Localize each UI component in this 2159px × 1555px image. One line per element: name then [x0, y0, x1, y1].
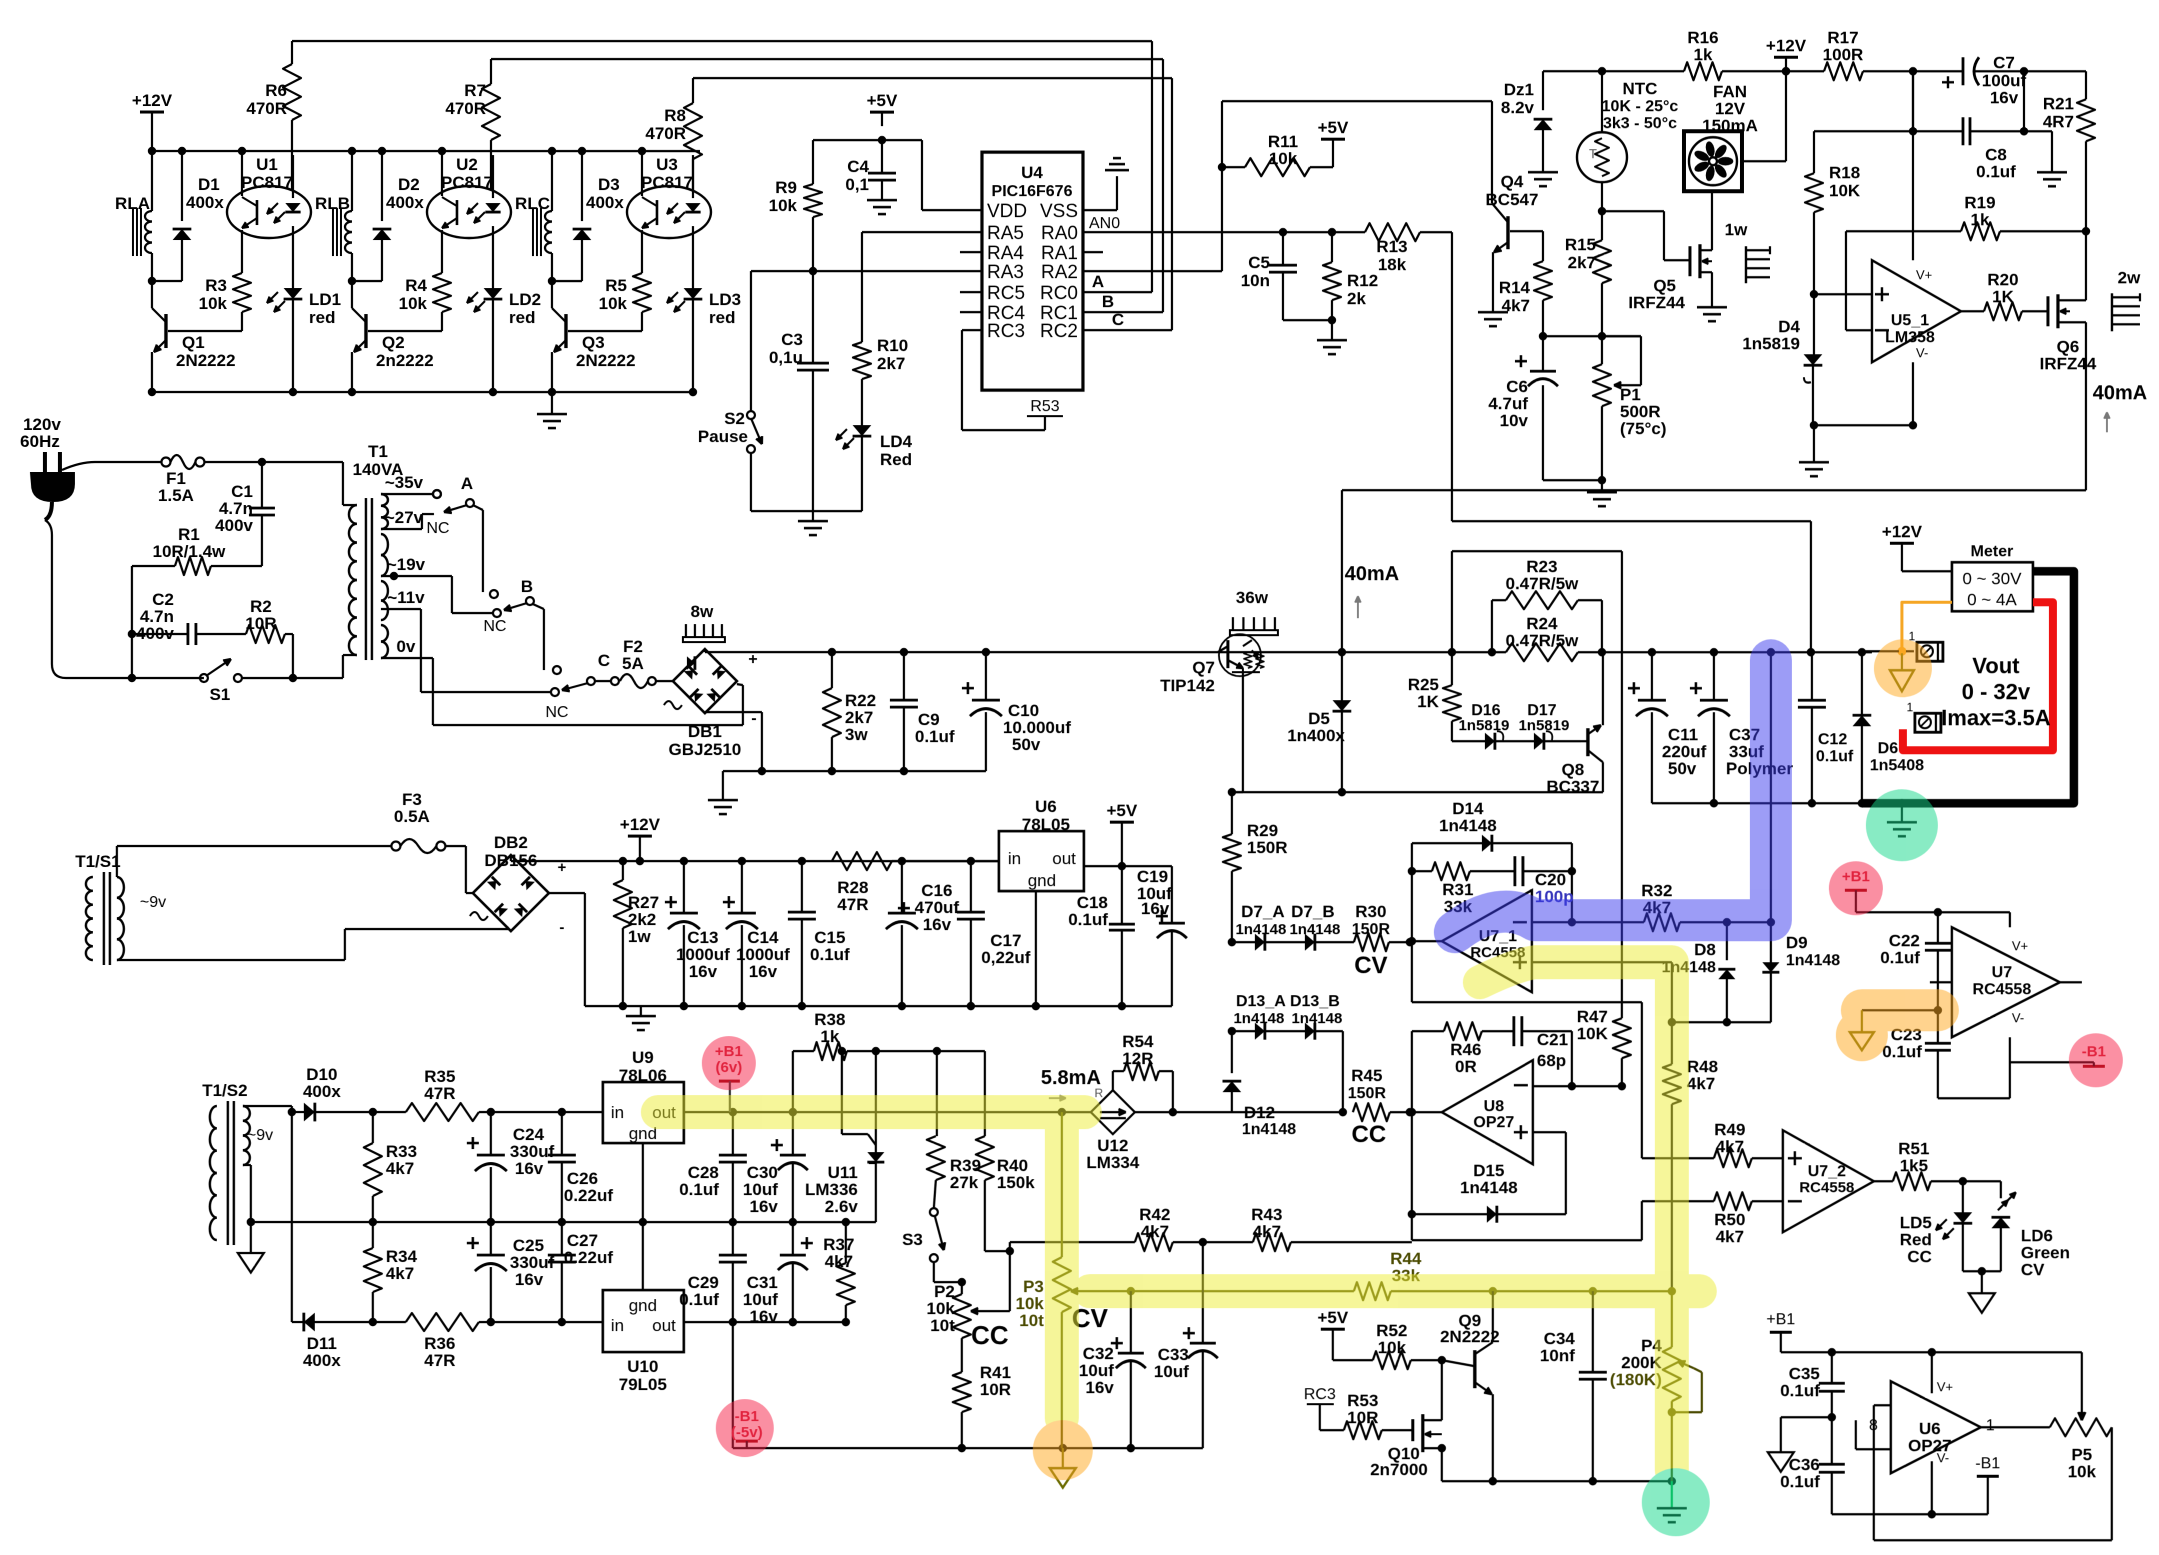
wire DB2 plus rail — [510, 855, 512, 861]
wire DB1 minus path — [705, 711, 762, 713]
svg-text:2k: 2k — [1347, 289, 1366, 308]
wire C22/C23 mid to triangle — [1862, 1009, 1938, 1011]
svg-text:0.1uf: 0.1uf — [1068, 910, 1108, 929]
resistor R54 12R — [1112, 1071, 1114, 1090]
svg-text:16v: 16v — [749, 1307, 778, 1326]
svg-text:BC337: BC337 — [1546, 777, 1599, 796]
svg-text:470R: 470R — [645, 124, 686, 143]
svg-text:10t: 10t — [930, 1316, 955, 1335]
wire D10/D11 feed vertical — [291, 1112, 293, 1322]
opamp U7 RC4558 — [1952, 927, 2060, 1037]
svg-text:C5: C5 — [1248, 253, 1270, 272]
resistor R41 10R — [961, 1338, 963, 1372]
svg-text:RA1: RA1 — [1041, 243, 1078, 264]
capacitor C26 0.22uf — [561, 1112, 563, 1155]
ground S2 rail — [812, 511, 814, 521]
opamp U8 OP27 — [1442, 1060, 1533, 1164]
resistor R17 100R — [1824, 62, 1863, 80]
svg-text:Q1: Q1 — [182, 333, 205, 352]
relay coil RLB — [351, 151, 353, 211]
wire VSS to ground — [1083, 209, 1117, 211]
wire U10 out row — [684, 1321, 846, 1323]
IC U9 78L06 — [603, 1082, 684, 1143]
svg-text:+5V: +5V — [1318, 118, 1349, 137]
svg-text:4k7: 4k7 — [1502, 296, 1530, 315]
svg-text:red: red — [509, 308, 535, 327]
resistor R25 1K — [1451, 652, 1453, 685]
wire R28 to U6 — [892, 860, 999, 862]
svg-text:S1: S1 — [210, 685, 231, 704]
resistor R22 2k7 3w — [831, 652, 833, 688]
fuse F1 1.5A — [161, 458, 170, 467]
wire Q7 emitter row — [1232, 791, 1603, 793]
svg-text:RC4558: RC4558 — [1973, 981, 2032, 998]
svg-text:Red: Red — [880, 450, 912, 469]
svg-text:1n5819: 1n5819 — [1742, 334, 1800, 353]
transistor Q1 2N2222 — [164, 314, 167, 348]
svg-text:C12: C12 — [1818, 731, 1847, 748]
svg-text:-B1: -B1 — [1975, 1455, 2000, 1472]
svg-text:36w: 36w — [1236, 588, 1269, 607]
svg-text:BC547: BC547 — [1486, 190, 1539, 209]
capacitor C24 330uf — [490, 1112, 492, 1155]
wire LED join — [1963, 1270, 2001, 1272]
svg-text:4k7: 4k7 — [386, 1159, 414, 1178]
svg-text:40mA: 40mA — [1345, 563, 1399, 585]
svg-text:D13_B: D13_B — [1290, 993, 1340, 1010]
resistor R12 2k — [1331, 232, 1333, 262]
resistor R24 0.47R/5w in bus — [1506, 643, 1578, 661]
svg-text:50v: 50v — [1012, 735, 1041, 754]
wire S1 bottom to DB2 — [117, 959, 345, 961]
capacitor C37 33uf Polymer — [1713, 652, 1715, 700]
zener U11 LM336 2.6v — [875, 1051, 877, 1152]
svg-text:16v: 16v — [1085, 1378, 1114, 1397]
wire RC1 to net B — [1083, 311, 1163, 313]
capacitor C6 4.7uf — [1542, 336, 1544, 371]
transistor Q2 2n2222 — [364, 314, 367, 348]
svg-text:16v: 16v — [515, 1159, 544, 1178]
mains plug — [43, 452, 47, 472]
svg-text:NTC: NTC — [1623, 79, 1658, 98]
resistor R2 10R — [196, 633, 246, 635]
resistor R35 47R — [406, 1103, 479, 1121]
svg-text:in: in — [1008, 849, 1021, 868]
svg-text:1k: 1k — [1694, 45, 1713, 64]
IC U6 78L05 — [999, 831, 1084, 891]
svg-text:RC3: RC3 — [1304, 1386, 1336, 1403]
red wire meter to Vout- — [1903, 602, 2053, 750]
svg-text:CC: CC — [1907, 1247, 1932, 1266]
svg-text:R15: R15 — [1565, 235, 1596, 254]
svg-text:V+: V+ — [2012, 938, 2028, 953]
wire net B from RC1 to R7 — [491, 58, 1163, 60]
resistor R40 150k — [984, 1051, 986, 1136]
wire R13 to Vout sense — [1451, 232, 1453, 521]
svg-text:4k7: 4k7 — [825, 1252, 853, 1271]
svg-text:10k: 10k — [599, 294, 628, 313]
svg-text:RLA: RLA — [115, 194, 150, 213]
svg-text:1.5A: 1.5A — [158, 486, 194, 505]
svg-text:100R: 100R — [1823, 45, 1864, 64]
svg-text:VDD: VDD — [987, 201, 1027, 222]
svg-text:10nf: 10nf — [1540, 1346, 1575, 1365]
wire rail R17-C7 — [1863, 70, 1963, 72]
wire U7_1 plus row — [1532, 961, 1672, 963]
+12V power flag meter — [1890, 542, 1914, 545]
+5V power flag U6 — [1110, 821, 1134, 824]
resistor R29 150R — [1231, 792, 1233, 834]
ground VSS — [1116, 176, 1118, 182]
wire U5 +input — [1814, 293, 1872, 295]
svg-text:0.1uf: 0.1uf — [679, 1180, 719, 1199]
orange wire meter to Vout+ — [1902, 602, 1952, 649]
resistor R44 33k — [1131, 1290, 1354, 1292]
ground D4/U5 — [1813, 425, 1815, 462]
svg-text:D2: D2 — [398, 175, 420, 194]
svg-text:IRFZ44: IRFZ44 — [2040, 354, 2097, 373]
resistor R43 4k7 — [1253, 1233, 1291, 1251]
svg-text:R5: R5 — [605, 276, 627, 295]
resistor R51 1k5 — [1874, 1180, 1893, 1182]
opamp U7_2 RC4558 — [1783, 1130, 1874, 1232]
wire opto emitter rail — [152, 391, 693, 393]
svg-text:NC: NC — [545, 704, 568, 721]
wire +B1 row U6b — [1781, 1351, 2082, 1353]
svg-text:10v: 10v — [1500, 411, 1529, 430]
optocoupler U3 PC817 — [627, 186, 711, 238]
svg-text:0.47R/5w: 0.47R/5w — [1506, 631, 1580, 650]
capacitor C31 10uf — [792, 1222, 794, 1255]
earth triangle P3 bottom — [1062, 1448, 1064, 1468]
resistor R7 — [490, 59, 492, 84]
sense triangle at Vout+ — [1901, 653, 1903, 670]
svg-text:10R: 10R — [980, 1380, 1011, 1399]
svg-text:U7: U7 — [1992, 964, 2013, 981]
ground Dz1 — [1528, 171, 1558, 174]
svg-text:LD1: LD1 — [309, 290, 341, 309]
capacitor C2 4.7n — [132, 633, 188, 635]
+5V power flag C4 — [870, 111, 894, 114]
diode D1 400x — [181, 151, 183, 221]
bridge rectifier DB2 DB156 — [473, 855, 549, 931]
svg-text:18k: 18k — [1378, 255, 1407, 274]
terminal 2 Vout- — [1915, 713, 1941, 732]
svg-text:gnd: gnd — [629, 1296, 657, 1315]
svg-text:R3: R3 — [205, 276, 227, 295]
resistor R33 4k7 — [372, 1112, 374, 1143]
svg-text:RC0: RC0 — [1040, 283, 1078, 304]
wire R1 left vertical — [131, 566, 133, 678]
svg-text:U10: U10 — [627, 1357, 658, 1376]
diode D3 400x — [581, 151, 583, 221]
svg-text:C21: C21 — [1537, 1030, 1568, 1049]
wire Q9/Q10/C34 bottom row — [1442, 1480, 1672, 1482]
resistor R9 10k — [812, 140, 814, 184]
wire U6b input feedback — [1874, 1404, 1891, 1406]
wire Q6 source 40mA net — [1342, 489, 2086, 491]
wire +12V rail — [152, 150, 700, 152]
svg-text:400v: 400v — [215, 516, 253, 535]
wire U8 minus row — [1533, 1085, 1622, 1087]
svg-text:4R7: 4R7 — [2043, 112, 2074, 131]
svg-text:1n4148: 1n4148 — [1439, 816, 1497, 835]
LED LD2 red — [484, 288, 503, 299]
svg-text:0v: 0v — [396, 637, 415, 656]
svg-text:C3: C3 — [781, 330, 803, 349]
resistor R21 4R7 — [2085, 71, 2087, 99]
diode D11 400x — [304, 1313, 315, 1332]
ground aux rail — [640, 1006, 642, 1016]
svg-text:400x: 400x — [386, 193, 424, 212]
resistor R37 4k7 — [837, 1263, 855, 1305]
capacitor C12 0.1uf — [1811, 652, 1813, 700]
svg-text:RA4: RA4 — [987, 243, 1024, 264]
svg-text:47R: 47R — [424, 1351, 455, 1370]
svg-text:3w: 3w — [845, 725, 868, 744]
svg-text:RA2: RA2 — [1041, 262, 1078, 283]
thermistor NTC — [1601, 71, 1603, 132]
svg-text:60Hz: 60Hz — [20, 432, 60, 451]
svg-text:U6: U6 — [1035, 797, 1057, 816]
svg-text:0.1uf: 0.1uf — [679, 1290, 719, 1309]
svg-text:10k: 10k — [1378, 1338, 1407, 1357]
capacitor C29 0.1uf — [732, 1222, 734, 1255]
svg-text:A: A — [461, 474, 473, 493]
wire C5/R12 join — [1283, 319, 1332, 321]
bridge rectifier DB1 GBJ2510 — [673, 649, 737, 713]
switch S3 — [930, 1208, 938, 1216]
fuse F2 5A — [611, 677, 619, 685]
svg-text:150R: 150R — [1352, 921, 1391, 938]
LED LD1 red — [284, 288, 303, 299]
capacitor C5 10n — [1282, 232, 1284, 265]
svg-text:5.8mA: 5.8mA — [1041, 1067, 1101, 1089]
capacitor C14 1000uf — [741, 861, 743, 913]
wire U6b V+ — [1931, 1352, 1933, 1393]
svg-text:16v: 16v — [1141, 899, 1170, 918]
wire R14/C6/R15/P1 row — [1543, 335, 1641, 337]
wire bottom aux rail — [733, 1447, 1203, 1449]
svg-text:+5V: +5V — [1107, 801, 1138, 820]
resistor R46 0R — [1411, 1031, 1413, 1240]
wire C7 right to R21 corner — [1975, 70, 2086, 72]
capacitor C8 0.1uf — [1912, 71, 1914, 131]
svg-text:1n4148: 1n4148 — [1291, 1010, 1342, 1027]
IC U10 79L05 — [603, 1290, 684, 1352]
diode D8 1n4148 — [1726, 922, 1728, 960]
svg-text:R21: R21 — [2043, 94, 2074, 113]
wire RA5 net to R10 — [862, 231, 982, 233]
svg-text:R45: R45 — [1351, 1066, 1382, 1085]
svg-text:LD3: LD3 — [709, 290, 741, 309]
wire R44 row wiper — [1090, 1290, 1131, 1292]
svg-text:+: + — [748, 651, 757, 668]
svg-text:400x: 400x — [186, 193, 224, 212]
svg-text:V-: V- — [2012, 1010, 2024, 1025]
resistor R39 27k — [936, 1051, 938, 1136]
potentiometer P2 10k 10t — [961, 1282, 963, 1294]
wire R23 outer loop — [1451, 551, 1453, 652]
resistor R52 10k — [1333, 1359, 1373, 1361]
svg-text:RC3: RC3 — [987, 321, 1025, 342]
ground P1 — [1601, 480, 1603, 492]
svg-text:470R: 470R — [445, 99, 486, 118]
svg-text:T: T — [1589, 146, 1597, 161]
wire bus to C11 region — [1578, 651, 1872, 653]
zener Dz1 8.2v — [1542, 71, 1544, 110]
LED LD6 Green CV — [2000, 1181, 2002, 1198]
svg-text:1n400x: 1n400x — [1287, 726, 1345, 745]
wire plug to F1 — [62, 462, 95, 470]
capacitor C18 0.1uf — [1121, 866, 1123, 924]
svg-text:1: 1 — [1986, 1417, 1995, 1434]
svg-text:0.1uf: 0.1uf — [1976, 162, 2016, 181]
wire net A from RC0 to R6 — [292, 40, 1152, 42]
svg-text:47R: 47R — [424, 1084, 455, 1103]
svg-text:400x: 400x — [303, 1082, 341, 1101]
svg-text:U1: U1 — [256, 155, 278, 174]
svg-text:1n4148: 1n4148 — [1460, 1178, 1518, 1197]
svg-text:10k: 10k — [769, 196, 798, 215]
optocoupler U1 PC817 — [227, 186, 311, 238]
green ground Q10 row — [1671, 1481, 1673, 1508]
svg-text:0.1uf: 0.1uf — [1780, 1381, 1820, 1400]
svg-text:1k: 1k — [820, 1027, 839, 1046]
resistor R34 4k7 — [372, 1222, 374, 1248]
wire C6/P1 bottom — [1543, 479, 1602, 481]
capacitor C35 0.1uf — [1831, 1352, 1833, 1383]
svg-text:150R: 150R — [1348, 1085, 1387, 1102]
svg-text:R18: R18 — [1829, 163, 1860, 182]
thick black wire meter to minus — [1862, 571, 2074, 803]
diode D6 1n5408 — [1861, 652, 1863, 715]
wire D8/D9 bottom row — [1672, 1021, 1771, 1023]
wire U10 gnd — [642, 1222, 644, 1290]
resistor R15 2k7 — [1601, 211, 1603, 240]
wire D13 to R45 — [1342, 1031, 1344, 1112]
svg-text:16v: 16v — [749, 1197, 778, 1216]
+5V power flag R11 — [1321, 138, 1345, 141]
wire U8 loop bottom row — [1412, 1239, 1642, 1241]
resistor R32 4k7 — [1644, 913, 1680, 931]
svg-text:0.22uf: 0.22uf — [564, 1248, 613, 1267]
wire U6 out to +5V — [1084, 865, 1172, 867]
svg-text:16v: 16v — [689, 962, 718, 981]
resistor R42 4k7 — [1010, 1241, 1135, 1243]
svg-text:78L06: 78L06 — [619, 1066, 667, 1085]
svg-text:16v: 16v — [1990, 88, 2019, 107]
transistor Q7 TIP142 darlington — [1226, 640, 1229, 668]
svg-text:R30: R30 — [1355, 902, 1386, 921]
svg-text:0R: 0R — [1455, 1057, 1477, 1076]
svg-text:RA3: RA3 — [987, 262, 1024, 283]
svg-text:RC5: RC5 — [987, 283, 1025, 304]
wire Vout sense — [1770, 652, 1772, 922]
wire FAN to +12V — [1742, 160, 1786, 162]
LED LD4 Red — [853, 425, 872, 436]
ground C4 — [867, 199, 897, 202]
svg-text:0.47R/5w: 0.47R/5w — [1506, 574, 1580, 593]
svg-text:10n: 10n — [1241, 271, 1270, 290]
svg-text:2n7000: 2n7000 — [1370, 1460, 1428, 1479]
resistor R14 4k7 — [1542, 231, 1544, 261]
relay coil RLA — [151, 151, 153, 211]
resistor R38 1k — [792, 1051, 794, 1112]
svg-text:47R: 47R — [837, 895, 868, 914]
svg-text:3k3 - 50°c: 3k3 - 50°c — [1603, 115, 1677, 132]
mosfet Q6 IRFZ44 — [2046, 296, 2049, 326]
svg-text:1n4148: 1n4148 — [1289, 921, 1340, 938]
svg-text:PC817: PC817 — [241, 173, 293, 192]
diode D17 1n5819 — [1495, 740, 1534, 742]
svg-text:CC: CC — [971, 1320, 1009, 1350]
wire U6 gnd — [1035, 891, 1037, 1006]
svg-text:0 - 32v: 0 - 32v — [1962, 679, 2031, 704]
svg-text:0.1uf: 0.1uf — [1880, 948, 1920, 967]
svg-text:1k5: 1k5 — [1900, 1156, 1928, 1175]
svg-text:D8: D8 — [1694, 940, 1716, 959]
svg-text:RLC: RLC — [515, 194, 550, 213]
potentiometer P3 10k 10t — [1061, 1112, 1063, 1257]
svg-text:U4: U4 — [1021, 163, 1043, 182]
wire RC2 to net C — [1083, 329, 1172, 331]
svg-text:1K: 1K — [1992, 287, 2014, 306]
wire U7_1 output — [1412, 940, 1442, 942]
svg-text:0.1uf: 0.1uf — [1780, 1472, 1820, 1491]
svg-text:D9: D9 — [1786, 933, 1808, 952]
svg-text:C: C — [598, 651, 610, 670]
svg-text:10K - 25°c: 10K - 25°c — [1602, 98, 1679, 115]
svg-text:1n5819: 1n5819 — [1458, 717, 1509, 734]
svg-text:0,1: 0,1 — [845, 175, 869, 194]
wire net C from RC2 to R8 — [693, 77, 1172, 79]
svg-text:2N2222: 2N2222 — [1440, 1327, 1500, 1346]
svg-text:~9v: ~9v — [247, 1127, 273, 1144]
net label R53 flag — [962, 329, 982, 331]
svg-text:4k7: 4k7 — [386, 1264, 414, 1283]
svg-text:-: - — [559, 919, 564, 936]
earth triangle U7 mid — [1850, 1032, 1874, 1050]
svg-text:R53: R53 — [1030, 398, 1059, 415]
wire C7C8 junction down — [2023, 71, 2025, 131]
diode D9 1n4148 — [1770, 922, 1772, 962]
capacitor C9 0.1uf — [903, 652, 905, 700]
svg-text:PC817: PC817 — [641, 173, 693, 192]
wire U9 out +B1 row — [684, 1111, 1091, 1113]
svg-text:+12V: +12V — [620, 815, 661, 834]
resistor R11 10k — [1245, 158, 1310, 176]
svg-text:4k7: 4k7 — [1253, 1222, 1281, 1241]
transistor Q3 2N2222 — [564, 314, 567, 348]
svg-text:12R: 12R — [1122, 1049, 1153, 1068]
svg-text:LM334: LM334 — [1086, 1153, 1139, 1172]
svg-text:T1: T1 — [368, 442, 388, 461]
capacitor C11 220uf 50v — [1651, 652, 1653, 700]
svg-text:T1/S2: T1/S2 — [202, 1081, 247, 1100]
svg-text:red: red — [709, 308, 735, 327]
wire C8 row to R18 — [1814, 130, 1913, 132]
svg-text:AN0: AN0 — [1089, 215, 1120, 232]
svg-text:C4: C4 — [847, 157, 869, 176]
svg-text:8.2v: 8.2v — [1501, 98, 1535, 117]
svg-text:50v: 50v — [1668, 759, 1697, 778]
capacitor C21 68p — [1512, 1016, 1515, 1046]
svg-text:CC: CC — [1352, 1121, 1387, 1148]
ground Q5 source — [1697, 306, 1727, 309]
resistor R19 1k — [1961, 222, 2000, 240]
wire NTC node to Q5 gate — [1602, 210, 1664, 212]
